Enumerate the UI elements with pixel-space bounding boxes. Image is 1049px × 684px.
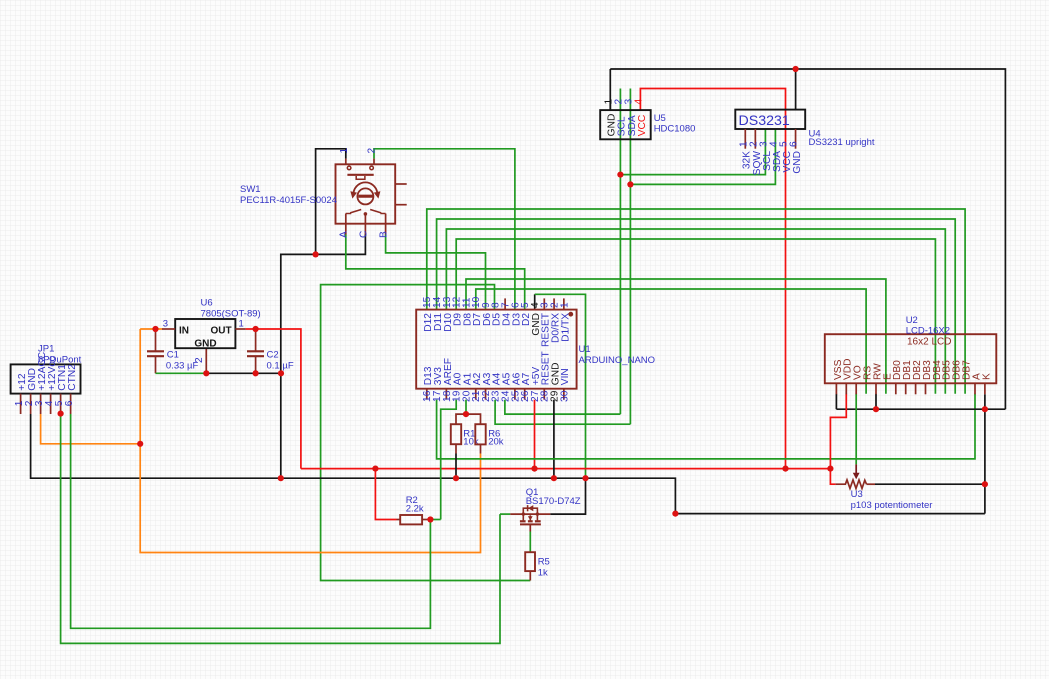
svg-text:p103 potentiometer: p103 potentiometer (851, 500, 933, 511)
wire: Q1 drain black to GND bus (550, 478, 585, 514)
junction: pot wire on K drop (982, 481, 988, 487)
junction: C2 top on OUT net (253, 326, 259, 332)
wire: Arduino pin27 +5V drop (534, 400, 536, 469)
svg-text:10k: 10k (463, 437, 479, 448)
svg-text:HDC1080: HDC1080 (654, 124, 696, 135)
junction: DS3231 GND on top bus (793, 66, 799, 72)
svg-text:U2: U2 (906, 315, 918, 326)
IC U5 HDC1080 (600, 99, 695, 140)
wire: pot right black to K vertical (875, 483, 985, 485)
junction: ground row to left GND drop (278, 370, 284, 376)
svg-text:CTN2: CTN2 (67, 364, 78, 391)
junction: +12ACC orange node (137, 441, 143, 447)
wire: Arduino A0 (pin19) jog down to R2 right node (441, 400, 457, 520)
wire: VCC red net U5 pin4 up/right/down through U4 pin5 to +5V bus (640, 89, 785, 469)
svg-text:30: 30 (559, 390, 570, 402)
wire: Arduino pin29 GND drop (553, 400, 555, 479)
LCD U2 LCD-16X2 (825, 315, 997, 394)
svg-text:DS3231 upright: DS3231 upright (809, 137, 875, 148)
potentiometer U3 p103 (836, 464, 933, 510)
wire: D11 (pin14) to LCD DB6 (437, 219, 956, 394)
wire: Arduino pin4 GND green over right side down to GND bus (535, 294, 586, 478)
wire: R6 bottom stub (480, 444, 482, 453)
wire: R5 bottom stub to D5 row (529, 571, 531, 580)
wire: LCD K down to backlight return (984, 394, 986, 513)
junction: LCD K on ground bus (982, 406, 988, 412)
svg-text:3: 3 (163, 319, 168, 330)
svg-text:GND: GND (792, 151, 803, 174)
capacitor C2 0.1uF (247, 350, 294, 372)
wire: JP1 pin3 +12ACC orange down and right to riser (41, 414, 141, 444)
wire: U5 HDC1080 pin1 GND up to top bus (609, 69, 611, 110)
capacitor C1 0.33uF (147, 350, 199, 372)
junction: SCL branch (617, 172, 623, 178)
wire: SDA branch to DS3231 pin4 (630, 129, 775, 184)
junction: C1 top on IN net (152, 326, 158, 332)
wire: LCD VSS to ground bus (835, 394, 837, 409)
pot wiper arrow (855, 464, 857, 474)
wire: black ground row to left vertical (206, 372, 281, 374)
junction: R2 feed on +5V bus (372, 466, 378, 472)
svg-text:LCD-16X2: LCD-16X2 (906, 326, 950, 337)
wire: C2 top tie to OUT (255, 329, 257, 351)
junction: encoder common node (313, 251, 319, 257)
svg-text:C: C (358, 231, 369, 238)
junction: A1 on R1/R6 rail (463, 411, 469, 417)
wire: orange down and right to R6 bottom (140, 444, 480, 553)
svg-text:PEC11R-4015F-S0024: PEC11R-4015F-S0024 (240, 195, 337, 206)
svg-text:6: 6 (64, 400, 75, 406)
pin stub U5.1 (609, 102, 611, 110)
svg-text:K: K (981, 373, 992, 380)
connector JP1 6PDuPont (11, 344, 82, 415)
wire: LCD VDD red jog to +5V bus (830, 394, 846, 469)
wire: LCD RW to ground bus (875, 394, 877, 409)
regulator U6 7805(SOT-89) (162, 298, 261, 364)
wire: JP1 pin5 CTN1 green to Q1 gate riser (61, 414, 500, 644)
junction: Arduino +5V on bus (531, 466, 537, 472)
svg-text:VIN: VIN (560, 368, 571, 385)
wire: SCL branch to DS3231 pin3 (620, 129, 765, 175)
wire: DS3231 pin6 GND drop from top bus to U4 box top (795, 69, 797, 110)
wire: C2 bottom to ground row (255, 356, 257, 373)
resistor R5 1k (525, 552, 550, 578)
svg-text:1: 1 (239, 319, 244, 330)
wire: top GND bus from U5 pin1 to right side down to LCD ground bus (610, 69, 1005, 409)
junction: encoder GND on GND bus (278, 475, 284, 481)
svg-text:0.1 µF: 0.1 µF (267, 361, 294, 372)
rotary encoder SW1 PEC11R-4015F-S0024 (240, 148, 407, 239)
junction: SDA branch (627, 181, 633, 187)
svg-text:A: A (339, 231, 350, 238)
wire: Arduino pin4 GND black stub up (534, 294, 536, 309)
wire: D9 (pin12) to LCD DB4 (456, 239, 935, 394)
junction: R1 bottom on GND bus (453, 475, 459, 481)
svg-text:1k: 1k (538, 567, 548, 578)
wire: R2 right node link to A0 jog (430, 519, 440, 521)
wire: +5V red bus (301, 468, 831, 470)
svg-text:OUT: OUT (210, 326, 231, 337)
wire: SW1 pin1 black loop to common junction (316, 149, 346, 255)
wire: D5 (pin8) left and down to R5 bottom row (321, 285, 531, 581)
wire: Q1 gate feed green (500, 513, 510, 515)
wire: D12 (pin15) to LCD DB7 (427, 209, 965, 394)
MOSFET Q1 BS170-D74Z (510, 487, 581, 532)
wire: Arduino A1 (pin20) to R1/R6 top rail (465, 400, 467, 414)
wire: SDA green vertical from HDC pin3 down to A4 row (629, 89, 631, 425)
junction: LCD RW on ground bus (873, 406, 879, 412)
wire: A4 row from Arduino pin23 to SDA vertical (495, 400, 630, 425)
junction: LCD VDD on +5V bus (827, 466, 833, 472)
junction: C2 bottom on ground row (253, 370, 259, 376)
svg-text:IN: IN (179, 326, 189, 337)
wire: D10 (pin13) to LCD DB5 (446, 229, 945, 394)
svg-text:DS3231: DS3231 (739, 113, 790, 129)
svg-text:D1/TX: D1/TX (560, 313, 571, 342)
wire: 7805 IN orange feed (140, 328, 162, 330)
svg-text:SW1: SW1 (240, 184, 261, 195)
junction: pin4 GND wire on bus (582, 475, 588, 481)
svg-text:2: 2 (367, 148, 378, 154)
wire: JP1 pin6 CTN2 green to R2 right node (71, 414, 431, 628)
svg-text:GND: GND (194, 339, 216, 350)
wire: R1/R6 top rail (456, 414, 481, 424)
svg-text:1: 1 (339, 148, 350, 154)
svg-text:6: 6 (789, 141, 800, 147)
wire: D8 (pin11) to LCD E (466, 279, 886, 394)
svg-text:B: B (379, 231, 390, 238)
svg-text:R5: R5 (538, 557, 550, 568)
svg-text:C2: C2 (267, 350, 279, 361)
svg-text:ARDUINO_NANO: ARDUINO_NANO (579, 355, 656, 366)
svg-text:4: 4 (633, 99, 644, 105)
svg-text:BS170-D74Z: BS170-D74Z (526, 496, 581, 507)
wire: pot left red feed (830, 469, 835, 485)
wire: JP1 pin2 GND down/right = main GND bus (31, 414, 985, 514)
svg-text:U1: U1 (579, 344, 591, 355)
wire: green ground link C1 to 7805 GND (156, 372, 207, 374)
wire: C1 top tie to IN (155, 329, 157, 351)
wire: Q1 source green down to R5 (529, 532, 531, 553)
wire: D7 (pin10) to LCD RS (476, 289, 866, 394)
wire: R2 left feed from +5V bus (375, 469, 396, 520)
svg-text:7805(SOT-89): 7805(SOT-89) (201, 309, 261, 320)
resistor R1 10k (451, 424, 479, 447)
svg-text:20k: 20k (488, 437, 504, 448)
wire: SW1 pin2 green to Arduino D3 (pin6) (374, 149, 515, 310)
wire: R2 right stub (422, 519, 430, 521)
junction: 7805 GND node (203, 370, 209, 376)
wire: R1 bottom to GND bus (455, 444, 457, 453)
MCU U1 ARDUINO_NANO (416, 296, 655, 402)
wire: SW1 pin C black to junction (316, 235, 366, 255)
wire: 7805 OUT red to +5V riser (246, 329, 301, 469)
resistor R2 2.2k (400, 495, 424, 525)
svg-text:VCC: VCC (637, 115, 648, 137)
wire: LCD ground bus (836, 408, 1005, 410)
junction: JP1 pin5 CTN1 (58, 411, 64, 417)
junction: Arduino GND on bus (551, 475, 557, 481)
svg-text:0.33 µF: 0.33 µF (166, 361, 199, 372)
svg-text:C1: C1 (167, 350, 179, 361)
wire: SW1 pin B green to Arduino D6 (pin9) (386, 235, 486, 310)
resistor R6 20k (475, 424, 503, 447)
wire: A5 row from Arduino pin24 to SCL vertical (505, 400, 621, 414)
wire: LCD VO green down to pot wiper (855, 394, 857, 465)
junction: VCC riser on +5V bus (782, 466, 788, 472)
svg-text:U6: U6 (201, 298, 213, 309)
svg-text:U5: U5 (654, 113, 666, 124)
wire: 7805 GND pin down (205, 348, 207, 373)
IC U4 DS3231 (735, 110, 875, 176)
wire: C1 bottom to ground row (155, 356, 157, 373)
wire: SW1 pin A green to Arduino D2 (pin5) (346, 235, 525, 310)
junction: GND bus corner to backlight return (672, 510, 678, 516)
wire: common junction left and down to GND bus (281, 254, 316, 478)
wire: SCL green vertical from HDC pin2 down to A5 row (619, 89, 621, 415)
svg-text:U3: U3 (851, 489, 863, 500)
wire: orange riser up to 7805 IN (139, 329, 141, 444)
wire: Arduino 3V3 (pin17) to LCD A backlight row (437, 394, 975, 459)
svg-text:1: 1 (559, 302, 570, 308)
svg-text:2.2k: 2.2k (406, 504, 424, 515)
junction: R2 right node (427, 516, 433, 522)
svg-text:16x2 LCD: 16x2 LCD (907, 337, 951, 348)
